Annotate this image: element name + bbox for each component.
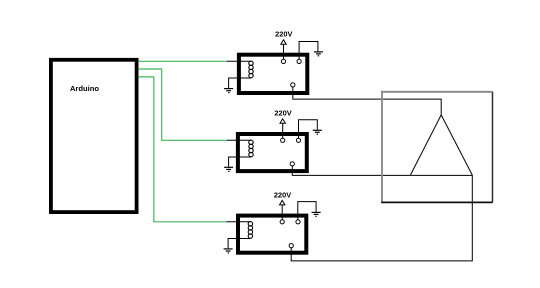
pin relay K3 common terminal xyxy=(280,220,284,224)
relay K2 coil L2 xyxy=(249,140,253,157)
wire relay K3 NC to ground xyxy=(298,202,316,220)
relay K2 coil input wire xyxy=(227,139,251,141)
relay K1 coil L1 xyxy=(249,61,253,78)
wire net1 Arduino to relay K1 coil (green) xyxy=(138,60,226,62)
wire relay K2 coil to ground xyxy=(229,157,251,167)
pin relay K1 common terminal xyxy=(281,59,285,63)
svg-text:220V: 220V xyxy=(275,30,292,39)
ground GND1 (relay K1 coil) xyxy=(224,89,233,93)
pin relay K2 common terminal xyxy=(281,138,285,142)
ground GND3 (relay K2 coil) xyxy=(224,167,233,171)
wire relay K1 coil to ground xyxy=(229,78,251,88)
svg-text:220V: 220V xyxy=(274,109,291,118)
wire relay K2 NO to amplifier (triangle base) xyxy=(292,166,472,176)
ground GND2 (relay K1 NC) xyxy=(314,52,323,56)
wire relay K3 coil to ground xyxy=(228,239,250,249)
label 220V (relay K2 supply) xyxy=(274,109,291,118)
power terminal 220V arrow (relay K3) xyxy=(280,200,285,219)
svg-text:Arduino: Arduino xyxy=(70,84,99,93)
power terminal 220V arrow (relay K2) xyxy=(280,119,285,138)
wire relay K3 NO to amplifier right leg xyxy=(291,175,472,261)
relay K1 body xyxy=(239,55,307,93)
pin relay K3 NO terminal xyxy=(289,244,293,248)
relay K3 body xyxy=(238,216,306,253)
Arduino U1 xyxy=(51,60,137,212)
svg-text:220V: 220V xyxy=(274,190,291,199)
relay K3 coil input wire xyxy=(227,221,251,223)
amplifier box U2 xyxy=(381,91,492,202)
pin relay K2 NC terminal xyxy=(296,138,300,142)
relay K1 coil input wire xyxy=(227,60,251,62)
wire relay K1 NC to ground xyxy=(299,42,318,60)
ground GND4 (relay K2 NC) xyxy=(313,130,322,134)
wire relay K1 NO to amplifier input xyxy=(293,87,441,115)
wire net3 Arduino to relay K3 coil (green) xyxy=(138,77,226,222)
amplifier triangle xyxy=(411,115,473,175)
wire relay K2 NC to ground xyxy=(299,120,318,138)
pin relay K1 NC terminal xyxy=(297,59,301,63)
label 220V (relay K1 supply) xyxy=(275,30,292,39)
wire net2 Arduino to relay K2 coil (green) xyxy=(138,69,226,140)
pin relay K2 NO terminal xyxy=(290,162,294,166)
power terminal 220V arrow (relay K1) xyxy=(281,40,286,60)
label 220V (relay K3 supply) xyxy=(274,190,291,199)
ground GND5 (relay K3 coil) xyxy=(224,249,233,253)
ground GND6 (relay K3 NC) xyxy=(312,212,321,216)
relay K2 body xyxy=(238,134,307,171)
pin relay K1 NO terminal xyxy=(291,83,295,87)
pin relay K3 NC terminal xyxy=(296,220,300,224)
relay K3 coil L3 xyxy=(248,222,252,239)
